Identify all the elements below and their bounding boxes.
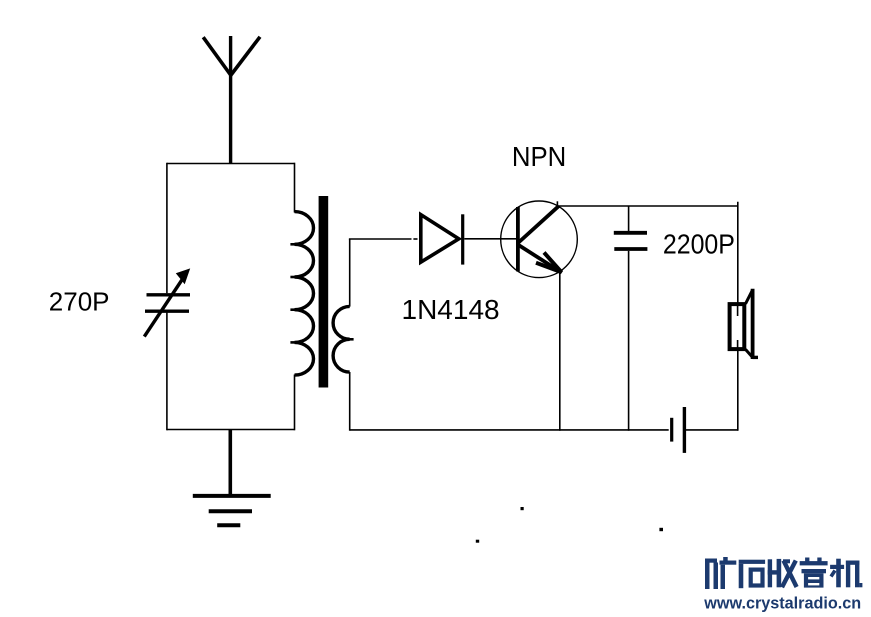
transistor Q1 base bar: [516, 207, 520, 271]
diode D1 1N4148 triangle: [421, 215, 459, 263]
collector junction tick: [556, 201, 558, 206]
wire: capacitor C2 bottom lead: [628, 251, 630, 431]
watermark logo char 机 tick: [831, 571, 835, 577]
watermark logo char 石: [739, 560, 765, 589]
speaker LS1 body: [730, 304, 745, 349]
wire stub inside speaker top: [737, 305, 739, 317]
stray dot 2: [476, 540, 479, 543]
watermark logo char 矿: [705, 557, 736, 589]
wire: collector to top rail: [557, 205, 738, 207]
wire: dash before diode: [413, 238, 417, 240]
watermark logo char 机: [830, 559, 862, 588]
transistor Q1 emitter stroke with arrow: [519, 245, 562, 272]
battery B1 long plate: [683, 407, 686, 453]
wire: diode to transistor base: [464, 238, 517, 240]
transistor Q1 collector stroke: [519, 206, 560, 243]
svg-text:1N4148: 1N4148: [402, 294, 500, 325]
variable capacitor C1 270P: [144, 268, 190, 336]
watermark logo char 收: [768, 559, 790, 587]
primary winding joint ticks: [290, 244, 295, 342]
stray dot 3: [659, 528, 663, 531]
wire: bottom rail left: [350, 429, 669, 431]
wire: bottom rail right: [686, 429, 738, 431]
wire: right rail: [737, 202, 739, 431]
transistor Q1 circle: [501, 201, 578, 278]
transformer T1 core: [319, 196, 329, 388]
svg-text:2200P: 2200P: [663, 228, 735, 260]
antenna: [203, 36, 260, 164]
diode D1 cathode bar: [461, 214, 464, 264]
svg-text:270P: 270P: [49, 287, 110, 317]
wire: secondary top lead: [349, 239, 351, 307]
watermark logo char 收 strokes: [782, 561, 797, 588]
capacitor C2 2200P plates: [614, 233, 648, 249]
wire: secondary to diode: [349, 238, 412, 240]
transformer T1 secondary winding: [333, 306, 350, 372]
battery B1 short plate: [670, 418, 673, 442]
secondary winding joint tick: [349, 338, 354, 341]
wire: capacitor C2 top lead: [628, 206, 630, 232]
wire: emitter down: [559, 272, 561, 431]
wire: secondary bottom lead: [349, 372, 351, 431]
watermark logo char 音: [800, 558, 828, 588]
stray dot 1: [521, 507, 524, 510]
ground bars: [193, 496, 271, 525]
speaker LS1 cone: [746, 289, 759, 359]
tank circuit rectangle (wires): [167, 163, 295, 431]
svg-text:NPN: NPN: [512, 141, 566, 172]
svg-text:www.crystalradio.cn: www.crystalradio.cn: [703, 594, 861, 612]
transformer T1 primary winding: [295, 212, 314, 376]
ground stem: [229, 430, 233, 496]
wire stub inside speaker bottom: [737, 340, 739, 349]
